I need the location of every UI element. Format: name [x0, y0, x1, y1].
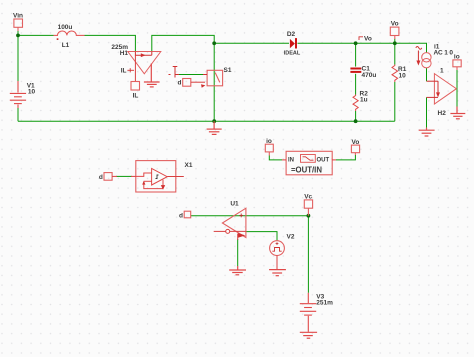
wire node to diode D2: [214, 42, 289, 44]
svg-text:d: d: [178, 80, 182, 87]
resistor R1: [392, 65, 398, 82]
wire diode to Vo node to R1 node to i1: [298, 43, 427, 52]
capacitor C1: [350, 69, 361, 72]
arrow H1 internal: [141, 53, 146, 57]
node marker IL plus: [127, 68, 134, 72]
diode D2: [290, 38, 297, 48]
svg-text:Vc: Vc: [304, 194, 312, 201]
port d of U1: [184, 211, 191, 218]
port d of S1: [183, 79, 191, 87]
source V2: [270, 241, 285, 256]
svg-text:io: io: [266, 138, 272, 145]
svg-text:IL: IL: [133, 92, 139, 99]
ground S1 bottom: [207, 121, 222, 134]
source V3 battery: [300, 293, 316, 332]
X1 internal glyph: [156, 175, 159, 179]
svg-text:d: d: [179, 212, 183, 219]
node Vc: [307, 214, 311, 218]
U1 minus lead and bubble: [214, 230, 226, 232]
svg-text:=OUT/IN: =OUT/IN: [291, 166, 322, 175]
svg-text:Vo: Vo: [364, 36, 372, 43]
wire Vc node down to V3: [307, 216, 309, 293]
wire V1 branch bottom: [17, 108, 19, 121]
arrow i1 direction: [416, 51, 420, 66]
lead d to X1: [112, 175, 136, 177]
arrow gate: [201, 84, 205, 88]
squiggle AC: [416, 47, 422, 50]
node switch top: [212, 41, 216, 45]
svg-text:1: 1: [440, 68, 444, 75]
svg-text:AC 1 0: AC 1 0: [434, 50, 454, 57]
X1 internal wiring: [136, 173, 163, 189]
arrow U1 output: [238, 233, 246, 238]
wire Vo probe stub: [394, 39, 396, 44]
svg-text:470u: 470u: [362, 72, 377, 79]
node R1 top: [393, 41, 397, 45]
node switch bottom rail: [212, 119, 216, 123]
wire top rail left: node to inductor: [18, 34, 54, 36]
lead io to block: [282, 159, 286, 161]
node Vin: [16, 34, 20, 38]
probe io right: [453, 60, 461, 70]
svg-text:H2: H2: [438, 110, 447, 117]
ground V3: [300, 332, 317, 338]
svg-text:d: d: [99, 174, 103, 181]
V2 ground stub: [276, 256, 278, 270]
svg-text:X1: X1: [185, 162, 193, 169]
svg-text:U1: U1: [230, 200, 239, 207]
waveform glyph: [303, 157, 314, 160]
wire i1 to H2 input: [426, 68, 428, 81]
wire block OUT to Vo probe: [336, 155, 355, 160]
wire H2 input lower to ground: [426, 97, 428, 127]
probe Vc: [304, 200, 312, 216]
node C1 bottom rail: [354, 119, 358, 123]
svg-text:1u: 1u: [360, 97, 368, 104]
wire io probe to block IN: [269, 156, 282, 160]
wire Vin stub to node: [17, 31, 19, 36]
probe io block: [265, 144, 273, 155]
svg-text:Vo: Vo: [351, 139, 359, 146]
ground U1: [229, 266, 246, 275]
svg-text:D2: D2: [287, 31, 296, 38]
arrow X1 down: [161, 185, 165, 190]
wire S1 vertical branch: [213, 43, 215, 121]
wire H1 right drop to S1 node: [152, 35, 214, 51]
comparator U1: [222, 208, 246, 237]
block X1: [136, 161, 176, 192]
arrow X1 feedback up: [142, 181, 145, 185]
source i1 AC: [422, 53, 431, 68]
marker plus U1: [239, 214, 243, 218]
glyph pulse V2: [272, 248, 281, 252]
svg-text:IDEAL: IDEAL: [284, 51, 301, 57]
wire io H2 probe line to ground: [456, 70, 458, 107]
svg-text:Vin: Vin: [13, 13, 23, 20]
wire V1 branch top: [17, 35, 19, 81]
wires green: [18, 31, 457, 293]
H1 output lead to IL probe: [134, 55, 136, 81]
X1 output lead: [167, 176, 184, 178]
svg-text:251m: 251m: [316, 300, 333, 307]
ground H1: [144, 64, 160, 87]
svg-text:OUT: OUT: [317, 157, 330, 163]
probe Vin: [14, 19, 23, 31]
wire d to U1 plus to Vc node: [191, 215, 309, 217]
wire bottom rail: [18, 120, 395, 122]
node Vo: [354, 41, 358, 45]
current sensor H1: [128, 52, 161, 74]
gate lead d to S1: [191, 81, 205, 83]
svg-text:H1: H1: [120, 50, 129, 57]
wire C1 branch: [355, 43, 357, 66]
ground i1: [419, 128, 435, 136]
wire U1 ground drop: [237, 239, 239, 266]
svg-text:io: io: [454, 53, 460, 60]
current sensor H2: [434, 74, 456, 104]
X1 internal triangle: [152, 168, 168, 185]
probe Vo top: [390, 27, 399, 39]
marker plus V2: [276, 242, 279, 245]
switch S1: [207, 70, 223, 86]
svg-text:L1: L1: [62, 42, 70, 49]
wire R1 branch: [394, 43, 396, 64]
svg-text:100u: 100u: [58, 24, 73, 31]
inductor L1: [54, 31, 85, 35]
svg-text:IN: IN: [288, 157, 294, 163]
source V1 battery: [10, 81, 26, 108]
svg-text:S1: S1: [224, 67, 232, 74]
block transfer function: [286, 151, 332, 175]
resistor R2: [353, 95, 358, 112]
wire inductor to H1 left drop: [85, 35, 136, 51]
probe Vo block: [351, 145, 359, 155]
wire U1 minus to V2: [246, 232, 277, 241]
node marker Vo flag: [359, 37, 363, 40]
ground H2 output: [450, 107, 465, 119]
ground V2: [269, 270, 286, 276]
arrow H2 internal: [436, 92, 440, 97]
lead block to Vo: [332, 159, 336, 161]
block waveform box: [301, 155, 316, 163]
svg-text:IL: IL: [121, 68, 127, 75]
svg-text:V2: V2: [287, 233, 295, 240]
svg-text:10: 10: [399, 72, 407, 79]
polarity dot L1: [57, 38, 59, 40]
probe IL: [131, 82, 140, 91]
U1 ground stub: [237, 234, 239, 240]
switch gate bar: [169, 67, 208, 78]
port d of X1: [104, 173, 112, 181]
wire d to X1: [116, 175, 132, 177]
svg-text:Vo: Vo: [391, 21, 399, 28]
wire S1 gate upper: [179, 74, 204, 76]
svg-text:10: 10: [28, 89, 36, 96]
